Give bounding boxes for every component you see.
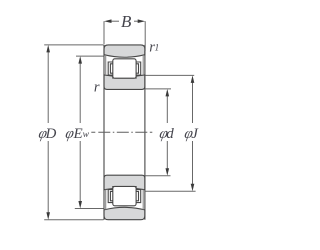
label phid <box>158 126 169 142</box>
label phiJ <box>183 126 194 142</box>
svg-text:r: r <box>94 79 100 95</box>
B right arrow <box>138 19 146 23</box>
outer ring bottom half <box>104 207 145 220</box>
phiJ dimension line <box>192 82 194 124</box>
cage bottom right <box>136 190 141 203</box>
phiJ top arrow <box>191 75 195 83</box>
dimension lines <box>44 21 195 220</box>
outer ring top half <box>104 45 145 58</box>
phiD dimension line <box>47 51 49 123</box>
label phiD <box>37 126 48 142</box>
phiJ bottom arrow <box>191 184 195 192</box>
svg-text:B: B <box>121 12 132 31</box>
phiEw dimension line <box>79 62 81 123</box>
svg-text:D: D <box>45 126 57 142</box>
bearing outline group <box>104 45 145 220</box>
phiEw bottom arrow <box>78 201 82 209</box>
phiD extension lines <box>44 44 103 46</box>
inner ring bottom half <box>104 175 145 190</box>
phid top arrow <box>166 89 170 97</box>
phiJ extension lines <box>145 74 194 76</box>
cage top right <box>136 62 141 75</box>
phiEw extension lines <box>76 55 104 57</box>
B dimension line <box>111 20 120 22</box>
roller bottom <box>113 186 136 205</box>
label phiEw <box>64 126 75 142</box>
arrows <box>46 19 194 219</box>
inner ring top half <box>104 75 145 90</box>
phiD top arrow <box>46 45 50 53</box>
svg-text:d: d <box>166 126 174 142</box>
cage top left <box>108 62 113 75</box>
phiEw top arrow <box>78 56 82 64</box>
recess silhouette lines <box>105 55 107 75</box>
phid extension lines <box>145 88 171 90</box>
cage bottom left <box>108 190 113 203</box>
B left arrow <box>104 19 112 23</box>
B extension lines <box>103 21 105 44</box>
phid bottom arrow <box>166 168 170 176</box>
roller top <box>113 59 136 78</box>
phiD bottom arrow <box>46 212 50 220</box>
svg-text:1: 1 <box>155 44 160 54</box>
center line <box>91 131 152 133</box>
side faces <box>103 45 105 220</box>
phid dimension line <box>166 95 168 123</box>
